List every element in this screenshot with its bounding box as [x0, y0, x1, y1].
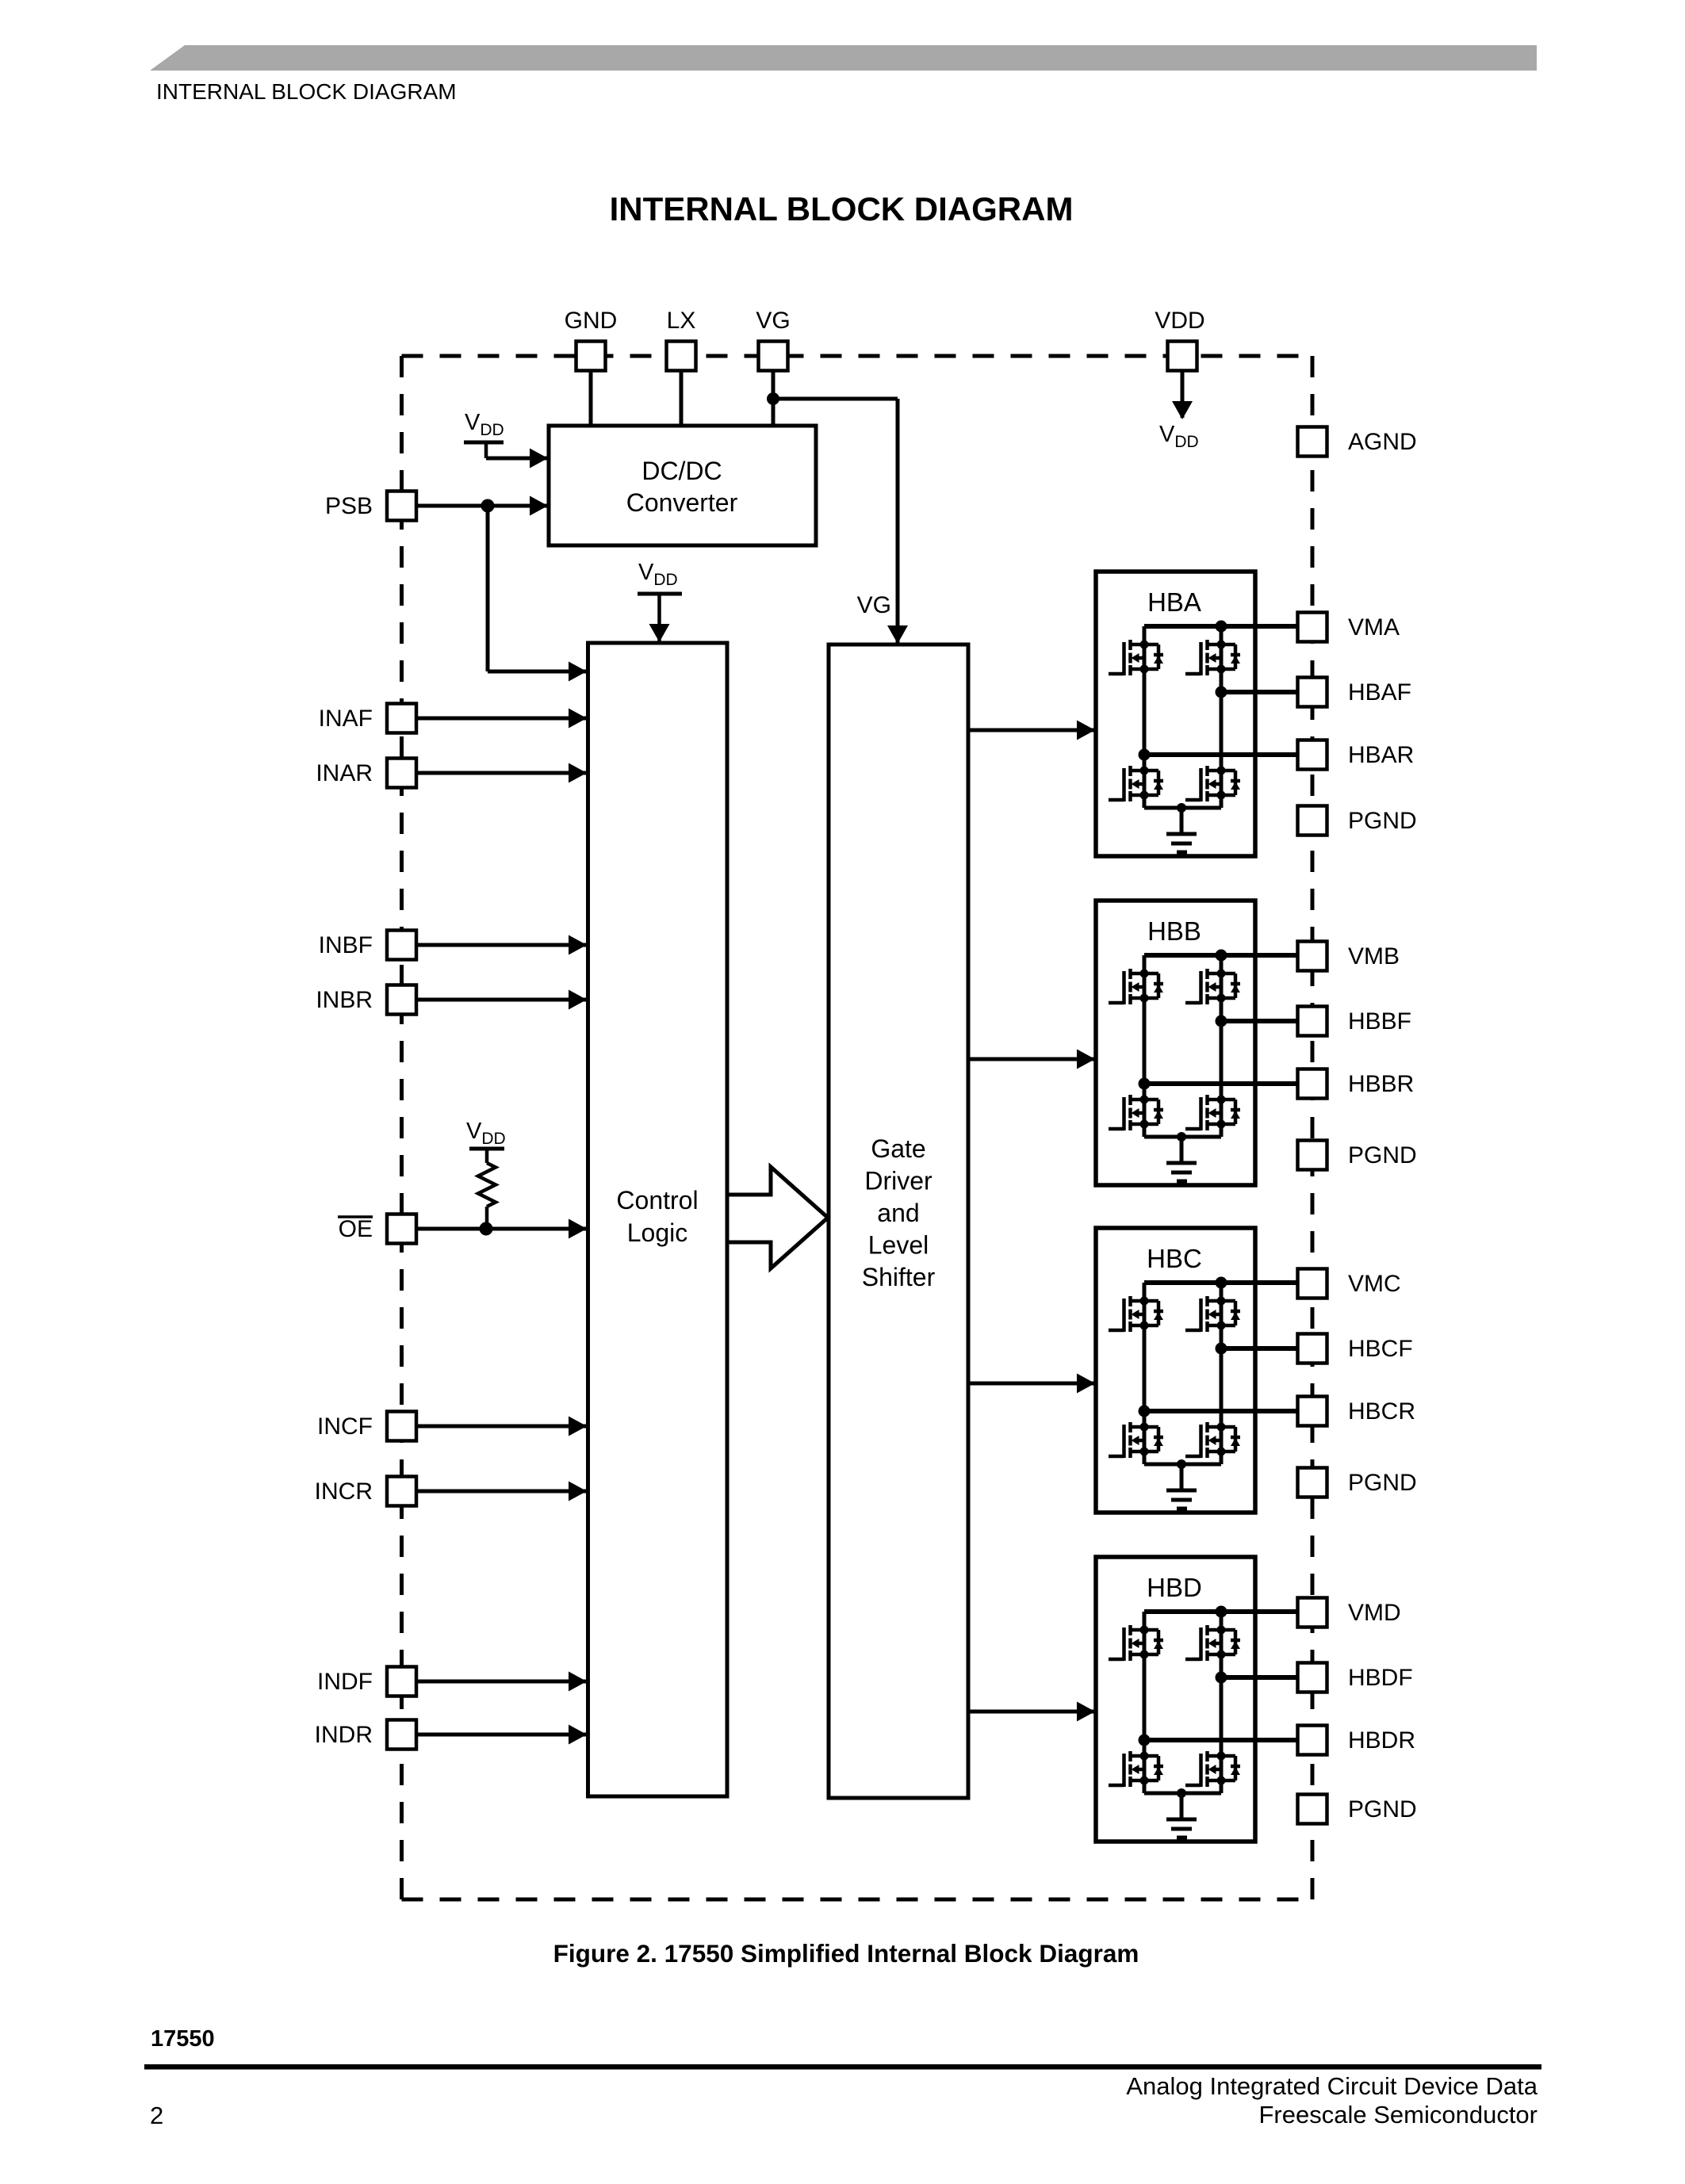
block U1 DC/DC converter	[549, 426, 816, 545]
transistor HBA Q3 (low side left)	[1109, 766, 1163, 801]
wire VDD to DC/DC vertical	[484, 442, 488, 458]
svg-text:Shifter: Shifter	[862, 1263, 936, 1291]
pin PSB	[387, 491, 416, 521]
wire HBB high-right drain	[1220, 955, 1224, 973]
svg-text:Converter: Converter	[626, 488, 738, 517]
pin INDR	[387, 1720, 416, 1750]
wire HBB left leg	[1143, 998, 1147, 1100]
svg-text:Freescale Semiconductor: Freescale Semiconductor	[1259, 2101, 1538, 2129]
transistor HBB Q3 (low side left)	[1109, 1095, 1163, 1130]
pin PGND (HBA)	[1298, 806, 1327, 836]
pin HBDR	[1298, 1726, 1327, 1755]
svg-text:INTERNAL BLOCK DIAGRAM: INTERNAL BLOCK DIAGRAM	[156, 79, 457, 104]
node OE junction	[480, 1222, 493, 1236]
transistor HBD Q3 (low side left)	[1109, 1751, 1163, 1787]
arrowhead INDF	[569, 1672, 587, 1692]
svg-text:HBCR: HBCR	[1348, 1398, 1415, 1425]
half-bridge block HBC	[1096, 1228, 1299, 1513]
transistor HBD Q2 (high side right)	[1185, 1625, 1240, 1661]
wire HBA VM rail	[1144, 624, 1299, 629]
pin AGND	[1298, 427, 1327, 457]
node HBD ground junction	[1177, 1788, 1186, 1798]
arrowhead VDD into DC/DC	[530, 449, 548, 469]
svg-text:VDD: VDD	[1155, 308, 1204, 334]
wire HBC low-right source	[1220, 1452, 1224, 1464]
wire HBA R output rail	[1144, 752, 1299, 757]
wire HBC ground stub	[1180, 1464, 1184, 1490]
pin HBBF	[1298, 1007, 1327, 1036]
wire dashed IC boundary top	[402, 354, 1313, 358]
node HBC R output junction	[1139, 1406, 1151, 1417]
wire OE to control logic	[416, 1227, 587, 1231]
svg-text:HBB: HBB	[1147, 916, 1201, 946]
node HBB R output junction	[1139, 1078, 1151, 1090]
pin INAR	[387, 759, 416, 788]
arrowhead VDD	[1172, 401, 1193, 419]
svg-text:INBR: INBR	[316, 987, 373, 1013]
transistor HBC Q4 (low side right)	[1185, 1422, 1240, 1458]
svg-text:2: 2	[150, 2102, 163, 2129]
wire HBD ground stub	[1180, 1793, 1184, 1819]
arrowhead VDD into control logic	[649, 624, 670, 642]
wire HBB R output rail	[1144, 1081, 1299, 1086]
wire HBB low-left source	[1143, 1124, 1147, 1137]
transistor HBC Q2 (high side right)	[1185, 1296, 1240, 1332]
svg-text:Gate: Gate	[871, 1134, 925, 1163]
half-bridge block HBB	[1096, 901, 1299, 1185]
svg-text:Control: Control	[616, 1186, 698, 1214]
arrowhead INCF	[569, 1417, 587, 1436]
wire HBC source rail	[1144, 1463, 1221, 1467]
svg-text:INBF: INBF	[319, 932, 373, 958]
wire HBC VM rail	[1144, 1280, 1299, 1285]
wire HBA low-left source	[1143, 795, 1147, 808]
node HBA R output junction	[1139, 749, 1151, 761]
svg-text:GND: GND	[565, 308, 618, 334]
svg-text:LX: LX	[667, 308, 696, 334]
svg-text:PGND: PGND	[1348, 1142, 1417, 1168]
svg-text:VMC: VMC	[1348, 1271, 1401, 1297]
wire PSB branch down	[486, 506, 490, 671]
transistor HBB Q1 (high side left)	[1109, 969, 1163, 1004]
wire HBB right leg	[1220, 998, 1224, 1100]
node HBA ground junction	[1177, 803, 1186, 813]
wire HBD source rail	[1144, 1792, 1221, 1796]
svg-text:DC/DC: DC/DC	[641, 457, 722, 485]
transistor HBA Q1 (high side left)	[1109, 640, 1163, 675]
wire HBA F output rail	[1221, 690, 1299, 694]
ground symbol HBD	[1166, 1818, 1197, 1822]
transistor HBB Q2 (high side right)	[1185, 969, 1240, 1004]
pin HBCR	[1298, 1397, 1327, 1426]
svg-text:VG: VG	[756, 308, 790, 334]
wire HBB F output rail	[1221, 1019, 1299, 1023]
svg-text:Driver: Driver	[864, 1167, 932, 1195]
node HBD R output junction	[1139, 1735, 1151, 1746]
wire HBA high-left drain	[1143, 626, 1147, 644]
svg-text:HBD: HBD	[1147, 1573, 1202, 1602]
svg-text:HBCF: HBCF	[1348, 1336, 1413, 1362]
arrowhead PSB into DC/DC	[530, 496, 548, 516]
wire VDD to DC/DC horizontal	[486, 457, 547, 461]
pin HBAF	[1298, 678, 1327, 707]
wire dashed IC boundary bottom	[402, 1898, 1313, 1902]
wire HBD right leg	[1220, 1654, 1224, 1756]
arrowhead PSB into control logic	[569, 662, 587, 682]
svg-text:INCF: INCF	[317, 1413, 373, 1440]
arrowhead INDR	[569, 1725, 587, 1745]
pin OE	[387, 1214, 416, 1244]
wire HBB low-right source	[1220, 1124, 1224, 1137]
wire INAF to control logic	[416, 717, 587, 721]
svg-text:HBBF: HBBF	[1348, 1008, 1411, 1035]
svg-text:VG: VG	[857, 592, 891, 618]
svg-text:Level: Level	[868, 1231, 929, 1260]
svg-text:PGND: PGND	[1348, 1470, 1417, 1496]
wire HBC high-left drain	[1143, 1283, 1147, 1301]
pin HBDF	[1298, 1663, 1327, 1693]
wire HBA right leg	[1220, 669, 1224, 771]
svg-text:INTERNAL BLOCK DIAGRAM: INTERNAL BLOCK DIAGRAM	[610, 190, 1074, 228]
wire INDR to control logic	[416, 1733, 587, 1737]
pin LX	[667, 342, 696, 371]
arrowhead INAR	[569, 763, 587, 783]
arrowhead VG into gate driver	[887, 625, 908, 644]
wire INBR to control logic	[416, 998, 587, 1002]
header gray banner	[150, 45, 1537, 71]
pin GND	[576, 342, 606, 371]
wire HBD low-right source	[1220, 1780, 1224, 1793]
node HBA F output junction	[1216, 687, 1227, 698]
wire HBD R output rail	[1144, 1738, 1299, 1742]
wire VG pin to DC/DC	[772, 370, 775, 428]
ground symbol HBA	[1166, 832, 1197, 836]
wire HBD left leg	[1143, 1654, 1147, 1756]
wire VG branch horizontal	[773, 397, 898, 401]
svg-text:INDF: INDF	[317, 1669, 373, 1695]
wire VDD to control logic	[657, 594, 661, 642]
node HBD VM junction	[1216, 1606, 1227, 1618]
svg-text:PGND: PGND	[1348, 1796, 1417, 1823]
pin INAF	[387, 704, 416, 733]
svg-text:VMD: VMD	[1348, 1600, 1401, 1626]
wire VDD to resistor	[485, 1149, 489, 1163]
arrowhead INCR	[569, 1482, 587, 1501]
pin INCF	[387, 1412, 416, 1441]
wire HBC left leg	[1143, 1325, 1147, 1427]
node VG junction	[767, 392, 779, 405]
wire INBF to control logic	[416, 943, 587, 947]
wire HBD high-right drain	[1220, 1612, 1224, 1630]
node HBB VM junction	[1216, 950, 1227, 962]
node HBD F output junction	[1216, 1672, 1227, 1684]
wire HBC low-left source	[1143, 1452, 1147, 1464]
pin VMA	[1298, 613, 1327, 642]
wire gate driver to HBA	[968, 729, 1094, 732]
wire HBB VM rail	[1144, 953, 1299, 958]
svg-text:VMA: VMA	[1348, 614, 1400, 641]
pin INBF	[387, 931, 416, 960]
svg-text:HBBR: HBBR	[1348, 1071, 1414, 1097]
wire HBD F output rail	[1221, 1675, 1299, 1680]
wire resistor to OE node	[485, 1207, 489, 1229]
transistor HBC Q3 (low side left)	[1109, 1422, 1163, 1458]
svg-text:INCR: INCR	[315, 1478, 373, 1505]
wire HBB ground stub	[1180, 1137, 1184, 1163]
wire HBB high-left drain	[1143, 955, 1147, 973]
footer rule	[144, 2064, 1541, 2070]
pin HBCF	[1298, 1334, 1327, 1364]
wire INDF to control logic	[416, 1680, 587, 1684]
svg-text:and: and	[877, 1199, 919, 1227]
svg-text:HBAF: HBAF	[1348, 679, 1411, 706]
node HBB ground junction	[1177, 1132, 1186, 1142]
wire HBC high-right drain	[1220, 1283, 1224, 1301]
svg-text:HBDR: HBDR	[1348, 1727, 1415, 1754]
ground symbol HBB	[1166, 1161, 1197, 1165]
svg-text:PGND: PGND	[1348, 808, 1417, 834]
svg-text:HBA: HBA	[1147, 587, 1201, 617]
wire HBD high-left drain	[1143, 1612, 1147, 1630]
wire dashed IC boundary left	[400, 356, 404, 1899]
wire VG down to gate driver	[896, 399, 900, 644]
svg-text:Figure 2. 17550 Simplified Int: Figure 2. 17550 Simplified Internal Bloc…	[553, 1939, 1139, 1968]
wire HBA ground stub	[1180, 808, 1184, 834]
transistor HBC Q1 (high side left)	[1109, 1296, 1163, 1332]
node PSB junction	[481, 499, 495, 513]
svg-text:OE: OE	[339, 1216, 373, 1242]
pin HBAR	[1298, 740, 1327, 770]
block U3 gate driver and level shifter	[829, 644, 968, 1798]
wire HBA low-right source	[1220, 795, 1224, 808]
overline OE	[338, 1215, 373, 1218]
wire LX pin to DC/DC	[680, 370, 684, 428]
half-bridge block HBD	[1096, 1557, 1299, 1842]
svg-text:INAF: INAF	[319, 706, 373, 732]
wire gate driver to HBD	[968, 1710, 1094, 1714]
wire PSB branch to control logic	[488, 670, 587, 674]
wire VDD pin down	[1181, 370, 1185, 418]
wire HBC right leg	[1220, 1325, 1224, 1427]
pin VMC	[1298, 1269, 1327, 1299]
pin VDD	[1168, 342, 1197, 371]
arrowhead INBF	[569, 935, 587, 955]
transistor HBD Q1 (high side left)	[1109, 1625, 1163, 1661]
transistor HBA Q4 (low side right)	[1185, 766, 1240, 801]
svg-text:HBDF: HBDF	[1348, 1665, 1413, 1691]
svg-text:AGND: AGND	[1348, 429, 1417, 455]
node HBC ground junction	[1177, 1459, 1186, 1469]
half-bridge block HBA	[1096, 572, 1299, 856]
transistor HBD Q4 (low side right)	[1185, 1751, 1240, 1787]
wire HBA left leg	[1143, 669, 1147, 771]
svg-text:INDR: INDR	[315, 1722, 373, 1748]
node HBC VM junction	[1216, 1277, 1227, 1289]
wire gate driver to HBB	[968, 1058, 1094, 1061]
block U2 control logic	[588, 643, 728, 1796]
pin PGND (HBC)	[1298, 1468, 1327, 1497]
wire INCF to control logic	[416, 1425, 587, 1429]
pin VMB	[1298, 942, 1327, 971]
svg-text:Analog Integrated Circuit Devi: Analog Integrated Circuit Device Data	[1126, 2072, 1538, 2100]
pin VMD	[1298, 1598, 1327, 1627]
wire INCR to control logic	[416, 1490, 587, 1494]
wire HBD low-left source	[1143, 1780, 1147, 1793]
wire HBD VM rail	[1144, 1609, 1299, 1614]
wire bus arrow control logic to gate driver	[727, 1167, 828, 1268]
svg-text:INAR: INAR	[316, 760, 373, 786]
wire gate driver to HBC	[968, 1382, 1094, 1386]
wire HBC F output rail	[1221, 1346, 1299, 1351]
wire GND pin to DC/DC	[589, 370, 593, 428]
pin VG	[759, 342, 788, 371]
svg-text:PSB: PSB	[325, 493, 373, 519]
svg-text:HBC: HBC	[1147, 1244, 1202, 1273]
pin PGND (HBB)	[1298, 1141, 1327, 1170]
svg-text:HBAR: HBAR	[1348, 742, 1414, 768]
svg-text:17550: 17550	[151, 2026, 215, 2052]
node HBB F output junction	[1216, 1016, 1227, 1027]
arrowhead OE	[569, 1219, 587, 1239]
pin PGND (HBD)	[1298, 1795, 1327, 1824]
wire HBC R output rail	[1144, 1409, 1299, 1413]
pin HBBR	[1298, 1069, 1327, 1099]
wire INAR to control logic	[416, 771, 587, 775]
pin INBR	[387, 985, 416, 1015]
resistor R1 pull-up zigzag	[478, 1163, 496, 1207]
arrowhead INBR	[569, 990, 587, 1010]
node HBC F output junction	[1216, 1343, 1227, 1355]
wire HBA source rail	[1144, 806, 1221, 810]
wire HBA high-right drain	[1220, 626, 1224, 644]
transistor HBA Q2 (high side right)	[1185, 640, 1240, 675]
pin INDF	[387, 1667, 416, 1696]
wire HBB source rail	[1144, 1135, 1221, 1139]
wire dashed IC boundary right	[1311, 356, 1315, 1899]
pin INCR	[387, 1477, 416, 1506]
node HBA VM junction	[1216, 621, 1227, 633]
svg-text:Logic: Logic	[627, 1218, 688, 1247]
wire PSB to DC/DC	[416, 504, 547, 508]
transistor HBB Q4 (low side right)	[1185, 1095, 1240, 1130]
svg-text:VMB: VMB	[1348, 943, 1400, 970]
arrowhead INAF	[569, 709, 587, 729]
ground symbol HBC	[1166, 1489, 1197, 1493]
